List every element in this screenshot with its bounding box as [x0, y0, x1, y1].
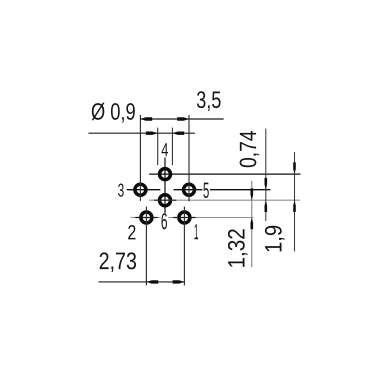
arrow dim 0,9 pointing right	[146, 132, 158, 135]
pin 6 horizontal cross	[154, 199, 176, 201]
pin label 2	[128, 225, 135, 239]
arrow dim 0,74 lower pointing up	[265, 200, 268, 212]
wire centerline through pin 4 row	[149, 173, 300, 175]
extension line right of dim 0,9	[171, 128, 173, 166]
pin 2 contact ring	[141, 212, 152, 223]
pin label 4	[162, 143, 169, 156]
dimension leader line 0,9	[89, 132, 195, 134]
arrow dim 3,5 right	[177, 117, 189, 120]
extension line below pin 1 to dim 2,73	[183, 207, 185, 286]
arrow dim 3,5 left	[140, 117, 152, 120]
pin label 1	[195, 224, 199, 239]
dimension line 2,73	[99, 281, 185, 283]
dimension line 0,74 vertical	[265, 129, 267, 222]
arrow dim 0,9 pointing left	[172, 132, 184, 135]
dimtext 1,9 rotated	[265, 226, 285, 252]
extension line dim 3,5 through pin 5	[188, 115, 190, 201]
pin label 6	[162, 213, 168, 229]
arrow dim 1,9 upper pointing down	[293, 162, 296, 174]
dimtext 0,74 rotated	[240, 131, 260, 167]
dimtext 1,32 rotated	[228, 229, 248, 267]
pin 2 horizontal cross	[135, 217, 157, 219]
arrow dim 0,74 upper pointing down	[265, 178, 268, 190]
wire vertical centerline pins 4 and 6	[164, 158, 166, 214]
pin 6 contact ring	[160, 195, 171, 206]
arrow dim 1,9 lower pointing up	[293, 200, 296, 212]
extension line dim 3,5 through pin 3	[139, 115, 141, 201]
pin label 5	[203, 183, 208, 198]
wire centerline through pins 3 and 5, right part	[174, 189, 271, 191]
halo behind pin label 6	[160, 213, 168, 230]
extension line below pin 2 to dim 2,73	[145, 207, 147, 286]
extension line left of dim 0,9	[157, 128, 159, 166]
arrow dim 2,73 left	[146, 280, 158, 283]
arrow dim 2,73 right	[173, 280, 185, 283]
pin label 3	[118, 184, 124, 197]
dimension line 1,32 vertical	[251, 181, 253, 267]
dimension line 3,5	[140, 118, 223, 120]
wire centerline through pin 6, gray	[149, 199, 300, 201]
dimtext 3,5	[197, 91, 221, 111]
arrow dim 1,32 upper pointing down	[251, 188, 254, 200]
arrow dim 1,32 lower pointing up	[251, 217, 254, 229]
pin 4 contact ring	[160, 169, 171, 180]
wire centerline through pins 2 and 1, gray	[130, 217, 253, 219]
pin 1 contact ring	[179, 212, 190, 223]
pin 5 contact ring	[184, 184, 195, 195]
dimension line 1,9 vertical	[294, 152, 296, 251]
wire centerline through pins 3 and 5, left part	[127, 189, 161, 191]
dimtext 2,73	[100, 252, 137, 272]
pin 3 contact ring	[135, 184, 146, 195]
pin 1 horizontal cross	[173, 217, 195, 219]
halo behind pin label 5	[202, 182, 210, 198]
dimtext Ø 0,9	[92, 103, 135, 123]
